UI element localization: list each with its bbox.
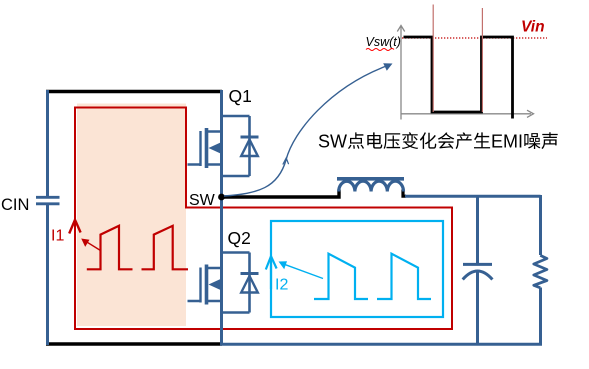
Vin dotted level line (402, 37, 547, 39)
transistor Q2 (188, 253, 259, 313)
input hot-loop highlight fill (77, 104, 186, 327)
annotation arrow SW to plot (224, 63, 393, 196)
top wire (black) (46, 90, 222, 94)
output capacitor branch (476, 195, 479, 345)
current I2 box (cyan) (271, 221, 443, 317)
bottom wire left (black) (46, 342, 222, 346)
svg-text:SW: SW (318, 132, 347, 152)
EMI edge marker 1 (432, 5, 434, 113)
svg-text:CIN: CIN (1, 196, 29, 214)
svg-text:EMI: EMI (491, 132, 523, 152)
I1 arrowhead on loop edge (69, 220, 80, 234)
Vsw(t) squiggle underline (366, 49, 394, 51)
load resistor branch (539, 195, 542, 345)
svg-text:SW: SW (189, 192, 216, 209)
inductor L (337, 179, 404, 192)
I2 leader arrow (279, 261, 324, 278)
current I1 waveform (87, 226, 188, 269)
capacitor CIN (36, 197, 60, 204)
output wire (blue) (405, 195, 541, 198)
node SW dot (218, 194, 225, 201)
hot loop outline (red L-shaped loop) (75, 108, 452, 330)
plot x-axis (401, 110, 534, 117)
output capacitor plates (463, 264, 493, 279)
EMI edge marker 2 (481, 8, 483, 112)
switching node vertical (Q1/Q2 leads, blue) (220, 90, 223, 346)
I1 leader arrow (81, 239, 100, 251)
svg-text:I2: I2 (275, 277, 288, 294)
svg-text:Q1: Q1 (229, 86, 252, 106)
left input wire (blue) (46, 90, 49, 345)
svg-text:Q2: Q2 (228, 228, 251, 248)
transistor Q1 (188, 116, 259, 176)
inductor right leg nub (black) (403, 190, 406, 197)
current I2 waveform (314, 254, 431, 299)
I2 arrow on box edge (266, 256, 277, 289)
svg-text:Vin: Vin (521, 19, 545, 36)
svg-text:Vsw(t): Vsw(t) (366, 35, 401, 49)
SW node wire (black) (222, 190, 339, 198)
plot y-axis (397, 26, 404, 120)
load resistor zigzag (534, 255, 547, 287)
bottom wire right (blue) (220, 343, 542, 346)
svg-text:I1: I1 (51, 228, 64, 245)
Vsw waveform (black) (404, 37, 513, 119)
